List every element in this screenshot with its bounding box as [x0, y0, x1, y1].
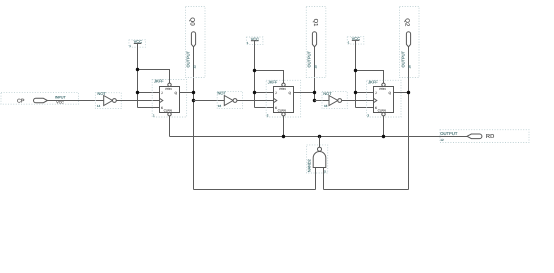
svg-text:PRN: PRN — [279, 87, 285, 91]
svg-text:INPUT: INPUT — [55, 96, 67, 100]
inverter NOT2 selection box — [217, 92, 242, 109]
svg-text:18: 18 — [324, 104, 328, 108]
svg-text:NOT: NOT — [97, 91, 106, 96]
wire FF3 Q output — [394, 92, 409, 94]
power VCC1 — [129, 39, 142, 48]
svg-text:CLRN: CLRN — [378, 109, 386, 113]
svg-text:OUTPUT: OUTPUT — [306, 51, 311, 68]
wire FF1 CLRN drop — [169, 116, 171, 137]
wire Q0 to NOT2 — [194, 100, 225, 102]
svg-text:Q0: Q0 — [189, 17, 196, 26]
wire VCC2 to J2 — [255, 92, 274, 94]
wire NAND output to bus — [319, 137, 321, 148]
output port Q0 selection box — [186, 7, 206, 78]
output port Q2 — [400, 18, 411, 68]
svg-text:15: 15 — [313, 65, 317, 69]
wire NOT1 to FF1 clock — [116, 100, 159, 102]
flip-flop FF1 JKFF — [153, 79, 180, 118]
wire Q0 vertical — [193, 47, 195, 190]
node NAND output junction — [318, 135, 321, 138]
svg-text:Q1: Q1 — [312, 19, 319, 27]
wire VCC3 vertical — [355, 40, 357, 107]
wire VCC2 to K2 — [255, 107, 274, 109]
wire bottom Q0 to NAND — [194, 189, 316, 191]
output port Q1 — [306, 19, 319, 69]
output port RD selection box — [440, 130, 529, 143]
wire Q1 to NOT3 — [315, 100, 330, 102]
wire VCC3 to PRN3 — [356, 71, 384, 84]
flip-flop FF2 JKFF — [267, 79, 294, 117]
wire FF1 Q output — [180, 92, 194, 94]
inverter NOT3 — [323, 91, 341, 108]
inverter NOT2 — [218, 91, 237, 109]
node Q0-Q junction — [192, 91, 195, 94]
wire VCC3 to K3 — [356, 107, 374, 109]
output port Q2 selection box — [400, 7, 420, 78]
svg-text:16: 16 — [407, 65, 411, 69]
svg-text:NOT: NOT — [218, 91, 227, 96]
wire FF2 CLRN drop — [283, 116, 285, 137]
power VCC1 selection box — [129, 40, 146, 47]
wire Q1 vertical — [314, 47, 316, 101]
flip-flop FF2 selection box — [266, 80, 300, 117]
node VCC2-J junction — [253, 91, 256, 94]
flip-flop FF1 selection box — [152, 80, 186, 118]
svg-text:RD: RD — [486, 134, 494, 140]
node VCC3-J junction — [354, 91, 357, 94]
nand gate NAND2 selection box — [307, 145, 328, 173]
node Q1-NOT3 junction — [313, 99, 316, 102]
node VCC1-PRN junction — [136, 68, 139, 71]
wire VCC2 vertical — [254, 41, 256, 108]
wire VCC3 to J3 — [356, 92, 374, 94]
svg-text:16: 16 — [218, 104, 222, 108]
wire CP to NOT1 — [47, 100, 103, 102]
wire VCC1 to PRN1 — [138, 70, 170, 84]
power VCC2 — [247, 36, 259, 45]
flip-flop FF3 selection box — [367, 80, 401, 117]
wire FF2 Q output — [294, 92, 315, 94]
svg-text:JKFF: JKFF — [154, 79, 164, 84]
wire VCC2 to PRN2 — [255, 71, 284, 84]
svg-text:PRN: PRN — [379, 87, 385, 91]
wire bottom Q2 to NAND — [324, 189, 409, 191]
wire reset bus — [170, 136, 468, 138]
node CLRN2 junction — [282, 135, 285, 138]
node VCC2-PRN junction — [253, 69, 256, 72]
node Q1-Q junction — [313, 91, 316, 94]
node Q2-Q junction — [407, 91, 410, 94]
svg-text:12: 12 — [192, 65, 196, 69]
power VCC3 selection box — [347, 37, 364, 44]
svg-text:PRN: PRN — [165, 87, 171, 91]
wire FF3 CLRN drop — [383, 116, 385, 137]
inverter NOT3 selection box — [322, 92, 347, 109]
output port RD — [440, 131, 494, 142]
svg-text:JKFF: JKFF — [368, 79, 378, 84]
svg-text:CP: CP — [17, 98, 25, 104]
node VCC3-PRN junction — [354, 69, 357, 72]
wire Q2 vertical — [408, 47, 410, 190]
power VCC2 selection box — [246, 37, 263, 44]
svg-text:OUTPUT: OUTPUT — [440, 131, 458, 136]
svg-text:NOT: NOT — [323, 91, 332, 96]
svg-text:CLRN: CLRN — [164, 109, 172, 113]
inverter NOT1 selection box — [95, 93, 121, 109]
wire VCC1 vertical — [137, 44, 139, 108]
wire VCC1 to J1 — [138, 92, 160, 94]
input port CP selection box — [1, 93, 79, 105]
node CLRN3 junction — [382, 135, 385, 138]
wire NOT3 to FF3 clock — [342, 100, 374, 102]
inverter NOT1 — [97, 91, 117, 108]
wire NAND input2 stub — [323, 168, 325, 190]
input port CP — [17, 96, 66, 105]
svg-text:NAND2: NAND2 — [308, 159, 312, 172]
svg-text:14: 14 — [97, 104, 101, 108]
wire NOT2 to FF2 clock — [237, 100, 274, 102]
flip-flop FF3 JKFF — [367, 79, 393, 117]
wire NAND input1 stub — [315, 168, 317, 190]
wire VCC1 to K1 — [138, 107, 160, 109]
node VCC1-J junction — [136, 91, 139, 94]
output port Q1 selection box — [306, 7, 326, 78]
power VCC3 — [348, 36, 360, 45]
svg-text:OUTPUT: OUTPUT — [185, 51, 190, 68]
svg-text:JKFF: JKFF — [268, 79, 278, 84]
node Q0-NOT2 junction — [192, 99, 195, 102]
nand gate NAND2 — [308, 147, 327, 173]
svg-text:OUTPUT: OUTPUT — [400, 51, 405, 68]
svg-text:12: 12 — [440, 138, 444, 142]
svg-text:CLRN: CLRN — [278, 109, 286, 113]
output port Q0 — [185, 17, 196, 68]
svg-text:Q2: Q2 — [403, 18, 410, 27]
